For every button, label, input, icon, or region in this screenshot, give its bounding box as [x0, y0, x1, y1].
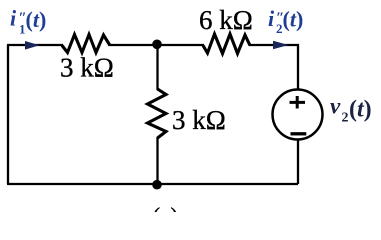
svg-text:3 kΩ: 3 kΩ	[60, 52, 114, 82]
svg-text:(t): (t)	[349, 97, 372, 123]
wire: left vertical	[7, 45, 9, 184]
node: top junction dot	[152, 40, 162, 50]
wire: top-left segment into R1	[7, 44, 63, 46]
resistor R1 3 kOhm horizontal	[62, 35, 110, 53]
plus sign inside source	[290, 96, 306, 109]
voltage source v2 circle	[273, 90, 323, 140]
svg-text:i: i	[268, 6, 275, 31]
wire: bottom horizontal	[7, 183, 298, 185]
wire: top-right segment from R2 to corner and down to source	[249, 45, 298, 90]
svg-text:i: i	[10, 6, 17, 31]
svg-text:v: v	[330, 94, 341, 119]
svg-text:(a): (a)	[153, 204, 179, 213]
svg-text:(t): (t)	[26, 7, 47, 32]
arrow for current i1	[25, 41, 40, 50]
resistor R3 3 kOhm vertical	[148, 89, 167, 138]
minus sign inside source	[291, 132, 307, 135]
wire: top middle segment between R1 and R2	[109, 44, 204, 46]
svg-text:(t): (t)	[283, 7, 304, 32]
svg-text:6 kΩ: 6 kΩ	[199, 5, 253, 35]
resistor R2 6 kOhm horizontal	[203, 34, 250, 54]
arrow for current i2	[273, 41, 289, 50]
wire: middle branch top	[156, 45, 158, 90]
wire: right below source to bottom corner	[297, 139, 299, 184]
svg-text:2: 2	[342, 111, 349, 126]
wire: middle branch bottom	[156, 137, 158, 184]
svg-text:3 kΩ: 3 kΩ	[172, 105, 226, 135]
node: bottom junction dot	[152, 180, 162, 190]
